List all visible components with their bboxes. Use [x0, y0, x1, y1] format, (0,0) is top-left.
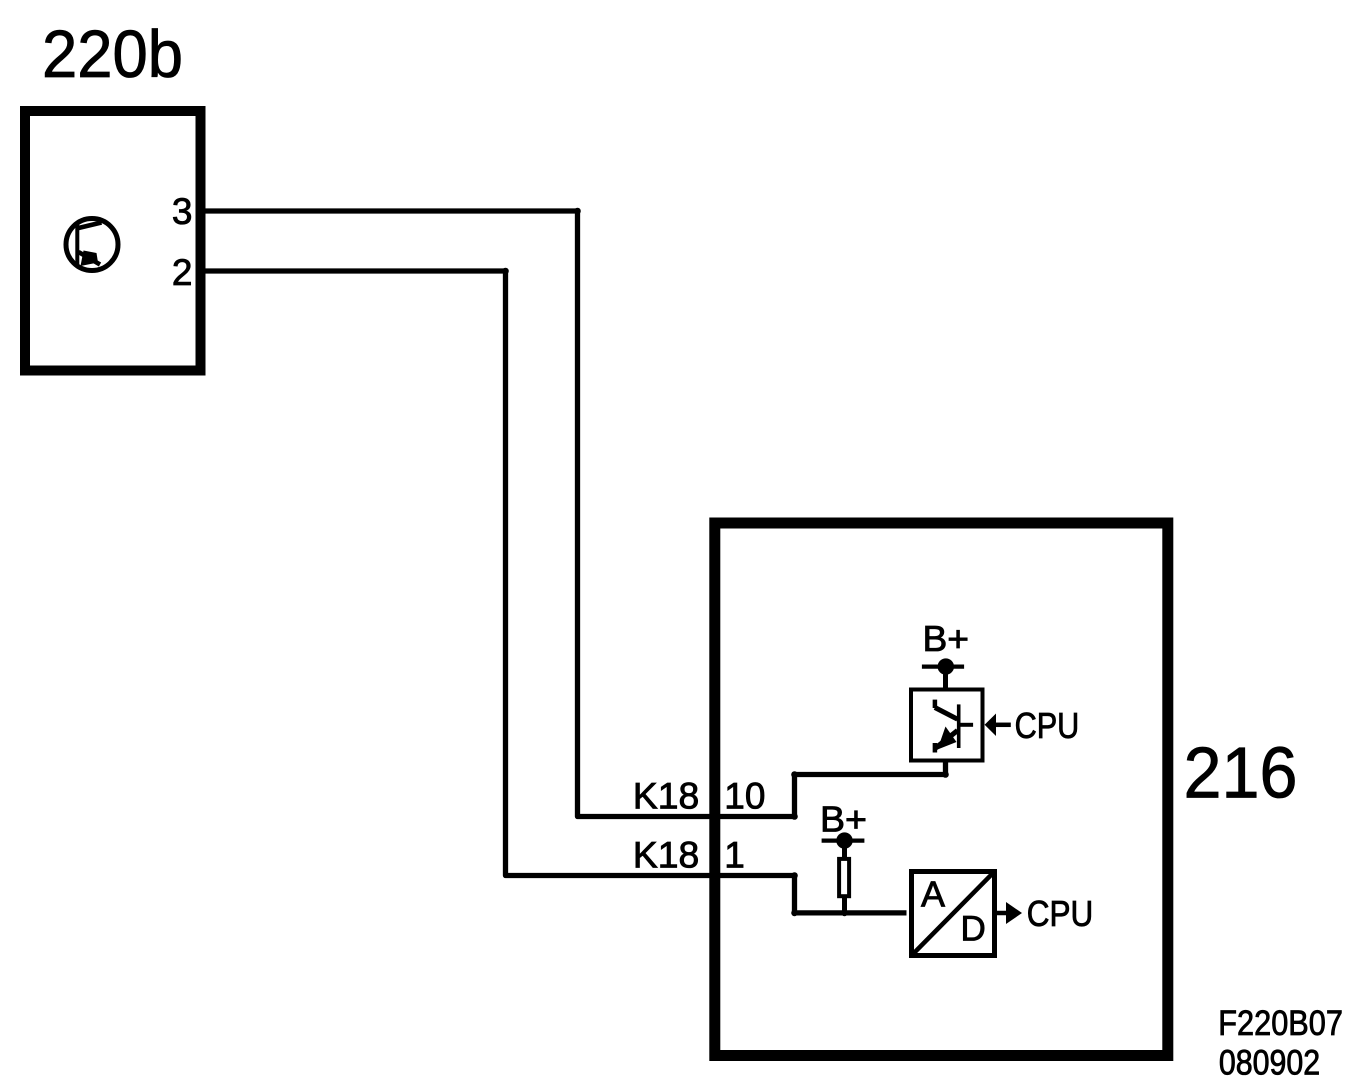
svg-text:10: 10	[724, 776, 765, 817]
pin 3 label	[172, 191, 193, 232]
wire pin 2 to K18 1 and A/D	[206, 268, 907, 917]
svg-text:080902: 080902	[1219, 1043, 1320, 1082]
label 216	[1184, 734, 1298, 814]
svg-text:CPU: CPU	[1015, 705, 1080, 746]
footer drawing number F220B07	[1218, 1004, 1343, 1043]
A/D converter	[912, 872, 995, 956]
svg-text:2: 2	[172, 252, 193, 293]
B+ supply for transistor	[922, 618, 969, 690]
component label 220b	[42, 17, 183, 92]
svg-text:K18: K18	[633, 835, 699, 876]
svg-text:3: 3	[172, 191, 193, 232]
driver transistor box	[911, 690, 983, 761]
ECU box 216	[715, 523, 1168, 1056]
svg-text:A: A	[921, 874, 945, 915]
CPU input arrow (to transistor base)	[985, 705, 1080, 746]
svg-text:D: D	[961, 909, 986, 948]
wire pin 3 to K18 10 and transistor	[206, 208, 949, 820]
net label K18 pin 1	[633, 835, 745, 876]
svg-text:1: 1	[724, 835, 745, 876]
svg-text:220b: 220b	[42, 17, 183, 92]
svg-text:CPU: CPU	[1027, 893, 1094, 934]
pin 2 label	[172, 252, 193, 293]
footer date 080902	[1219, 1043, 1320, 1082]
sensor symbol (transistor in circle)	[66, 219, 118, 271]
svg-text:216: 216	[1184, 734, 1298, 814]
net label K18 pin 10	[633, 776, 766, 817]
svg-text:F220B07: F220B07	[1218, 1004, 1343, 1043]
pull-up resistor	[839, 859, 849, 916]
svg-text:B+: B+	[923, 618, 970, 659]
connector box 220b	[25, 111, 201, 371]
svg-text:K18: K18	[633, 776, 699, 817]
CPU output arrow (from A/D)	[997, 893, 1093, 934]
B+ supply for resistor	[820, 798, 867, 858]
